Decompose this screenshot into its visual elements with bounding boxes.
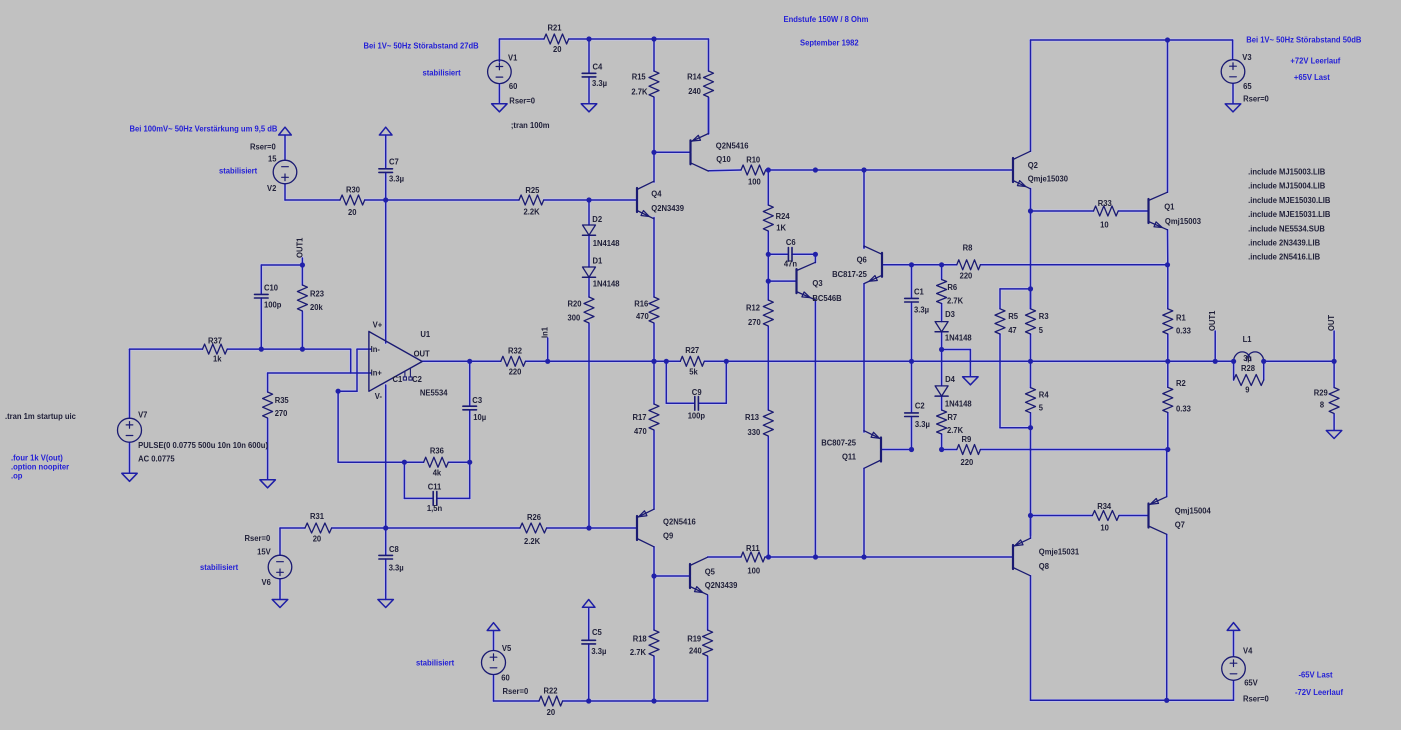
svg-text:R19: R19 bbox=[687, 634, 702, 643]
svg-text:20: 20 bbox=[313, 535, 322, 544]
svg-text:100p: 100p bbox=[688, 412, 706, 421]
svg-text:1N4148: 1N4148 bbox=[945, 334, 972, 343]
svg-text:R9: R9 bbox=[962, 435, 972, 444]
svg-text:1k: 1k bbox=[213, 354, 222, 363]
svg-text:100: 100 bbox=[748, 178, 761, 187]
svg-text:R24: R24 bbox=[776, 212, 791, 221]
svg-text:OUT1: OUT1 bbox=[295, 237, 304, 258]
svg-text:D4: D4 bbox=[945, 375, 955, 384]
svg-text:;tran 100m: ;tran 100m bbox=[511, 121, 550, 130]
svg-text:C5: C5 bbox=[592, 628, 602, 637]
svg-text:100p: 100p bbox=[264, 300, 282, 309]
svg-text:Q5: Q5 bbox=[705, 568, 716, 577]
svg-text:-72V Leerlauf: -72V Leerlauf bbox=[1295, 688, 1343, 697]
svg-text:Rser=0: Rser=0 bbox=[1243, 694, 1269, 703]
svg-text:R21: R21 bbox=[548, 24, 563, 33]
svg-text:.option noopiter: .option noopiter bbox=[11, 462, 69, 471]
svg-text:R27: R27 bbox=[685, 346, 700, 355]
svg-text:Q2N5416: Q2N5416 bbox=[663, 517, 696, 526]
svg-text:.include MJ15003.LIB: .include MJ15003.LIB bbox=[1248, 168, 1325, 177]
svg-text:BC817-25: BC817-25 bbox=[832, 270, 867, 279]
svg-text:R23: R23 bbox=[310, 289, 325, 298]
svg-text:C2: C2 bbox=[915, 402, 925, 411]
svg-text:220: 220 bbox=[961, 458, 974, 467]
svg-text:C6: C6 bbox=[786, 238, 796, 247]
svg-text:0.33: 0.33 bbox=[1176, 326, 1191, 335]
svg-text:.include NE5534.SUB: .include NE5534.SUB bbox=[1248, 224, 1325, 233]
svg-text:C3: C3 bbox=[472, 396, 482, 405]
svg-text:D1: D1 bbox=[593, 256, 603, 265]
svg-text:V+: V+ bbox=[373, 320, 383, 329]
svg-text:Q2: Q2 bbox=[1028, 161, 1039, 170]
svg-text:R7: R7 bbox=[947, 413, 957, 422]
svg-text:10: 10 bbox=[1100, 524, 1109, 533]
svg-text:Q6: Q6 bbox=[857, 255, 868, 264]
svg-text:1K: 1K bbox=[776, 223, 786, 232]
svg-text:R2: R2 bbox=[1176, 379, 1186, 388]
svg-text:3.3µ: 3.3µ bbox=[389, 174, 404, 183]
svg-text:R12: R12 bbox=[746, 303, 761, 312]
svg-text:.include 2N3439.LIB: .include 2N3439.LIB bbox=[1248, 239, 1320, 248]
svg-text:V4: V4 bbox=[1243, 646, 1253, 655]
svg-text:stabilisiert: stabilisiert bbox=[200, 563, 239, 572]
svg-text:2.7K: 2.7K bbox=[630, 648, 646, 657]
svg-text:-65V Last: -65V Last bbox=[1299, 671, 1333, 680]
svg-text:300: 300 bbox=[568, 313, 581, 322]
svg-text:Endstufe 150W / 8 Ohm: Endstufe 150W / 8 Ohm bbox=[784, 15, 869, 24]
svg-text:Rser=0: Rser=0 bbox=[1243, 95, 1269, 104]
svg-text:R16: R16 bbox=[634, 299, 649, 308]
svg-text:0.33: 0.33 bbox=[1176, 404, 1191, 413]
svg-text:R32: R32 bbox=[508, 346, 523, 355]
svg-text:stabilisiert: stabilisiert bbox=[416, 659, 455, 668]
svg-text:60: 60 bbox=[509, 82, 518, 91]
svg-text:C9: C9 bbox=[692, 388, 702, 397]
svg-text:15V: 15V bbox=[257, 548, 271, 557]
svg-text:.include 2N5416.LIB: .include 2N5416.LIB bbox=[1248, 253, 1320, 262]
svg-text:V2: V2 bbox=[267, 184, 277, 193]
svg-text:270: 270 bbox=[748, 318, 761, 327]
svg-text:R34: R34 bbox=[1097, 502, 1112, 511]
svg-text:R29: R29 bbox=[1314, 388, 1329, 397]
svg-text:V1: V1 bbox=[508, 54, 518, 63]
svg-text:R30: R30 bbox=[346, 185, 361, 194]
svg-text:R18: R18 bbox=[633, 634, 648, 643]
svg-text:R8: R8 bbox=[963, 244, 973, 253]
svg-text:.tran 1m startup uic: .tran 1m startup uic bbox=[5, 412, 76, 421]
svg-text:R25: R25 bbox=[525, 186, 540, 195]
svg-text:65: 65 bbox=[1243, 82, 1252, 91]
svg-text:3µ: 3µ bbox=[1243, 354, 1252, 363]
svg-text:20: 20 bbox=[547, 708, 556, 717]
svg-text:V7: V7 bbox=[138, 410, 148, 419]
svg-text:September 1982: September 1982 bbox=[800, 39, 859, 48]
svg-text:Rser=0: Rser=0 bbox=[503, 687, 529, 696]
svg-text:1,5n: 1,5n bbox=[427, 504, 442, 513]
svg-text:R10: R10 bbox=[746, 155, 761, 164]
svg-text:stabilisiert: stabilisiert bbox=[423, 68, 462, 77]
svg-text:3.3µ: 3.3µ bbox=[592, 79, 607, 88]
svg-text:Q2N3439: Q2N3439 bbox=[651, 204, 684, 213]
svg-text:3.3µ: 3.3µ bbox=[591, 647, 606, 656]
svg-text:.four 1k V(out): .four 1k V(out) bbox=[11, 453, 63, 462]
svg-text:R4: R4 bbox=[1039, 391, 1049, 400]
svg-text:47n: 47n bbox=[784, 260, 797, 269]
svg-text:5k: 5k bbox=[689, 367, 698, 376]
svg-text:+65V Last: +65V Last bbox=[1294, 73, 1330, 82]
svg-text:47: 47 bbox=[1008, 326, 1017, 335]
svg-text:V-: V- bbox=[375, 392, 383, 401]
svg-text:Q9: Q9 bbox=[663, 531, 674, 540]
svg-text:Qmje15030: Qmje15030 bbox=[1028, 175, 1069, 184]
svg-text:C1: C1 bbox=[914, 287, 924, 296]
svg-text:R20: R20 bbox=[568, 299, 583, 308]
svg-text:2.7K: 2.7K bbox=[947, 297, 963, 306]
svg-text:5: 5 bbox=[1039, 326, 1044, 335]
svg-text:8: 8 bbox=[1320, 400, 1325, 409]
svg-text:Q8: Q8 bbox=[1039, 562, 1050, 571]
svg-text:Qmj15004: Qmj15004 bbox=[1175, 507, 1212, 516]
svg-text:.include MJE15031.LIB: .include MJE15031.LIB bbox=[1248, 210, 1331, 219]
svg-text:V6: V6 bbox=[262, 578, 272, 587]
svg-text:NE5534: NE5534 bbox=[420, 389, 448, 398]
svg-text:15: 15 bbox=[268, 154, 277, 163]
svg-text:R33: R33 bbox=[1098, 199, 1113, 208]
svg-text:Q7: Q7 bbox=[1175, 520, 1186, 529]
svg-text:9: 9 bbox=[1245, 386, 1250, 395]
svg-text:Q2N5416: Q2N5416 bbox=[716, 142, 749, 151]
svg-text:R5: R5 bbox=[1008, 312, 1018, 321]
svg-text:stabilisiert: stabilisiert bbox=[219, 166, 258, 175]
svg-text:3.3µ: 3.3µ bbox=[389, 563, 404, 572]
svg-text:100: 100 bbox=[747, 566, 760, 575]
svg-text:R15: R15 bbox=[632, 73, 647, 82]
svg-text:BC546B: BC546B bbox=[812, 294, 842, 303]
svg-text:R35: R35 bbox=[275, 396, 290, 405]
svg-text:20k: 20k bbox=[310, 303, 323, 312]
svg-text:R11: R11 bbox=[746, 544, 760, 553]
svg-text:R26: R26 bbox=[527, 513, 542, 522]
svg-text:Q3: Q3 bbox=[812, 279, 823, 288]
svg-text:220: 220 bbox=[509, 367, 522, 376]
svg-text:R37: R37 bbox=[208, 336, 223, 345]
svg-text:R31: R31 bbox=[310, 512, 325, 521]
svg-text:R1: R1 bbox=[1176, 313, 1186, 322]
svg-text:L1: L1 bbox=[1243, 335, 1252, 344]
svg-text:Q1: Q1 bbox=[1164, 202, 1175, 211]
svg-text:Rser=0: Rser=0 bbox=[250, 142, 276, 151]
svg-text:1N4148: 1N4148 bbox=[593, 279, 620, 288]
svg-text:65V: 65V bbox=[1244, 679, 1258, 688]
svg-text:BC807-25: BC807-25 bbox=[821, 439, 856, 448]
svg-text:.op: .op bbox=[11, 471, 23, 480]
svg-text:3.3µ: 3.3µ bbox=[914, 306, 929, 315]
svg-text:Q10: Q10 bbox=[716, 155, 731, 164]
svg-text:Rser=0: Rser=0 bbox=[245, 534, 271, 543]
svg-text:OUT: OUT bbox=[1327, 315, 1336, 331]
svg-text:470: 470 bbox=[634, 427, 647, 436]
svg-text:R36: R36 bbox=[430, 446, 445, 455]
svg-text:.include MJ15004.LIB: .include MJ15004.LIB bbox=[1248, 182, 1325, 191]
svg-text:Q4: Q4 bbox=[651, 190, 662, 199]
svg-text:R14: R14 bbox=[687, 73, 702, 82]
svg-text:C1: C1 bbox=[393, 375, 403, 384]
svg-text:Bei 1V~ 50Hz Störabstand 27dB: Bei 1V~ 50Hz Störabstand 27dB bbox=[364, 41, 479, 50]
svg-text:5: 5 bbox=[1039, 403, 1044, 412]
svg-text:240: 240 bbox=[688, 87, 701, 96]
svg-text:In+: In+ bbox=[371, 368, 383, 377]
svg-text:220: 220 bbox=[960, 272, 973, 281]
svg-text:R28: R28 bbox=[1241, 364, 1256, 373]
svg-text:R3: R3 bbox=[1039, 312, 1049, 321]
svg-text:C10: C10 bbox=[264, 283, 279, 292]
svg-text:3.3µ: 3.3µ bbox=[915, 420, 930, 429]
svg-text:Rser=0: Rser=0 bbox=[509, 97, 535, 106]
svg-text:C4: C4 bbox=[593, 62, 603, 71]
svg-text:Q11: Q11 bbox=[842, 452, 857, 461]
svg-text:1N4148: 1N4148 bbox=[593, 239, 620, 248]
svg-text:20: 20 bbox=[553, 45, 562, 54]
svg-text:Qmje15031: Qmje15031 bbox=[1039, 547, 1080, 556]
svg-text:In1: In1 bbox=[541, 326, 550, 338]
svg-text:R22: R22 bbox=[544, 686, 559, 695]
svg-text:C11: C11 bbox=[428, 482, 442, 491]
svg-text:.include MJE15030.LIB: .include MJE15030.LIB bbox=[1248, 196, 1331, 205]
svg-text:2.7K: 2.7K bbox=[947, 426, 963, 435]
svg-text:1N4148: 1N4148 bbox=[945, 400, 972, 409]
svg-text:V3: V3 bbox=[1242, 53, 1252, 62]
svg-text:OUT: OUT bbox=[414, 350, 430, 359]
svg-text:V5: V5 bbox=[502, 644, 512, 653]
svg-text:270: 270 bbox=[275, 409, 288, 418]
svg-text:240: 240 bbox=[689, 647, 702, 656]
svg-text:In-: In- bbox=[371, 345, 381, 354]
svg-text:R17: R17 bbox=[633, 413, 648, 422]
svg-text:D3: D3 bbox=[945, 310, 955, 319]
svg-text:4k: 4k bbox=[433, 468, 442, 477]
svg-text:2.7K: 2.7K bbox=[631, 87, 647, 96]
svg-text:330: 330 bbox=[748, 428, 761, 437]
svg-text:U1: U1 bbox=[420, 330, 430, 339]
svg-text:2.2K: 2.2K bbox=[524, 537, 540, 546]
svg-text:R13: R13 bbox=[745, 413, 760, 422]
svg-text:C2: C2 bbox=[412, 375, 422, 384]
svg-text:OUT1: OUT1 bbox=[1208, 310, 1217, 331]
svg-text:Bei 100mV~ 50Hz Verstärkung um: Bei 100mV~ 50Hz Verstärkung um 9,5 dB bbox=[130, 124, 278, 133]
svg-text:Bei 1V~ 50Hz Störabstand 50dB: Bei 1V~ 50Hz Störabstand 50dB bbox=[1246, 36, 1361, 45]
svg-text:Q2N3439: Q2N3439 bbox=[705, 581, 738, 590]
svg-text:Qmj15003: Qmj15003 bbox=[1165, 217, 1202, 226]
svg-text:10: 10 bbox=[1100, 220, 1109, 229]
svg-text:10µ: 10µ bbox=[473, 413, 486, 422]
svg-text:20: 20 bbox=[348, 208, 357, 217]
svg-text:C7: C7 bbox=[389, 157, 399, 166]
svg-text:+72V Leerlauf: +72V Leerlauf bbox=[1290, 57, 1340, 66]
svg-text:D2: D2 bbox=[592, 215, 602, 224]
svg-text:60: 60 bbox=[501, 674, 510, 683]
svg-text:2.2K: 2.2K bbox=[524, 208, 540, 217]
svg-text:C8: C8 bbox=[389, 545, 399, 554]
svg-text:R6: R6 bbox=[947, 283, 957, 292]
svg-text:AC 0.0775: AC 0.0775 bbox=[138, 454, 175, 463]
svg-text:PULSE(0 0.0775 500u 10n 10n 60: PULSE(0 0.0775 500u 10n 10n 600u) bbox=[138, 441, 268, 450]
svg-text:470: 470 bbox=[636, 312, 649, 321]
